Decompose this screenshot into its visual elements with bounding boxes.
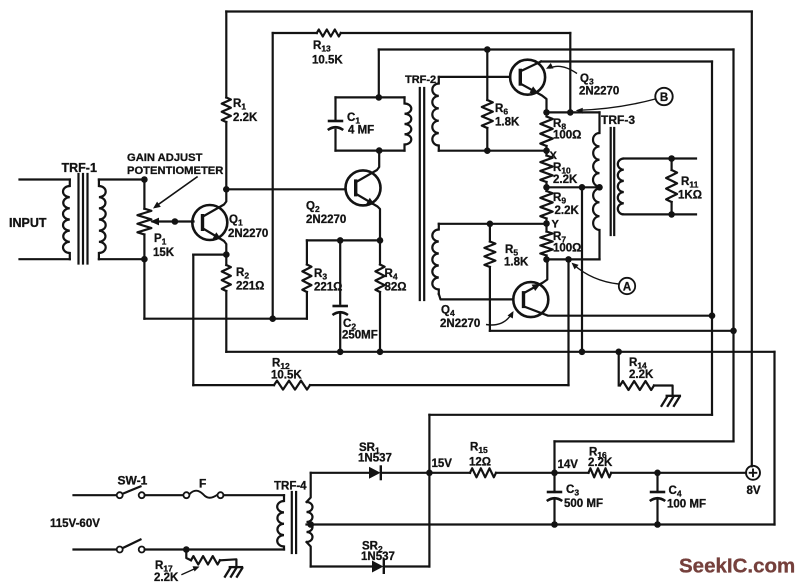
wire R11 box top (624, 157, 696, 159)
svg-text:GAIN ADJUST: GAIN ADJUST (127, 152, 203, 164)
node TRF-4 center tap (307, 521, 314, 528)
node Y junction (543, 220, 550, 227)
node C1 box top junction (376, 94, 383, 101)
terminal 8V positive (746, 466, 761, 497)
resistor R6 (482, 50, 520, 151)
potentiometer P1 (137, 180, 174, 260)
svg-text:2N2270: 2N2270 (579, 86, 619, 98)
svg-text:250MF: 250MF (342, 330, 378, 342)
wire left emitter drop (192, 255, 194, 386)
wire emitter junction to left (193, 254, 226, 256)
node Q4 collector junction on rail (709, 312, 716, 319)
wire R11 box bottom (624, 213, 696, 215)
label SeekIC.com watermark (679, 555, 795, 578)
node R1/Q1 collector junction (223, 186, 230, 193)
label POTENTIOMETER (127, 165, 223, 177)
node C2 top junction (337, 237, 344, 244)
svg-text:B: B (660, 92, 668, 104)
svg-text:TRF-3: TRF-3 (601, 113, 635, 127)
resistor R15 (469, 442, 496, 478)
wire R16 to C4 node (611, 472, 657, 474)
label X (550, 150, 558, 162)
node C4 bottom junction (654, 521, 661, 528)
svg-text:2.2K: 2.2K (555, 205, 580, 217)
wire rectifier output vertical (428, 473, 430, 567)
wire to node B (547, 111, 571, 113)
resistor R7 (540, 224, 581, 260)
switch SW-1 top pole (117, 486, 145, 498)
capacitor C4 (650, 473, 706, 525)
node Q2 emitter junction (377, 237, 384, 244)
wire 14V rail right vertical (732, 50, 734, 442)
wire supply return bus (311, 523, 775, 525)
label 115V-60V (50, 518, 100, 530)
svg-text:A: A (623, 282, 631, 294)
transistor Q4 (440, 259, 713, 330)
svg-text:1N537: 1N537 (358, 453, 392, 465)
node R7 bottom junction (543, 256, 550, 263)
svg-text:F: F (199, 477, 206, 491)
arrow Q4 label pointer (486, 311, 514, 325)
svg-text:15V: 15V (432, 458, 453, 470)
node R14 top junction (615, 349, 622, 356)
node C2 bottom on bus (337, 349, 344, 356)
wire R2 bottom lead to ground bus (225, 291, 227, 352)
label GAIN ADJUST (127, 152, 203, 164)
svg-text:1.8K: 1.8K (504, 257, 529, 269)
wire Q3 base line (439, 76, 510, 78)
node center-tap drop on bus (579, 349, 586, 356)
wire collector rail right vertical (711, 62, 713, 415)
wire TRF-1 secondary bottom to P1 (99, 258, 144, 260)
node A junction (565, 256, 572, 263)
node A circled label (619, 278, 635, 294)
wire 15V feed line (429, 414, 712, 416)
wire 14V feed line (555, 440, 734, 442)
arrow from A to node (572, 263, 619, 284)
node X junction (543, 147, 550, 154)
wire drop from R13 rail to node B (569, 33, 571, 112)
arrow Q3 label pointer (546, 63, 577, 74)
arrow gain-adjust pointer (153, 177, 197, 209)
svg-text:INPUT: INPUT (9, 216, 47, 230)
node center tap drop junction (579, 184, 586, 191)
svg-text:Y: Y (552, 219, 560, 231)
wire Q4 base line (439, 294, 514, 299)
svg-text:8V: 8V (747, 485, 761, 497)
wire C4 node to 8V terminal (658, 472, 747, 474)
svg-text:2.2K: 2.2K (233, 112, 258, 124)
wire drop from center tap to ground bus (581, 187, 583, 351)
wire bottom lead to TRF-4 (145, 548, 284, 550)
resistor R9 (540, 187, 579, 223)
resistor R8 (540, 117, 581, 151)
wire R3 bottom drop (306, 292, 308, 319)
fuse F (183, 477, 223, 499)
node B circled label (655, 88, 672, 105)
capacitor C2 (332, 240, 377, 351)
transformer TRF-1 (20, 161, 106, 264)
svg-text:2N2270: 2N2270 (228, 228, 268, 240)
wire main ground bus (226, 351, 774, 353)
wire R13 rail left segment (273, 32, 317, 34)
capacitor C1 (328, 97, 374, 150)
wire R13 rail right segment (341, 32, 571, 34)
wire 14V riser (553, 441, 555, 472)
svg-text:82Ω: 82Ω (385, 282, 407, 294)
svg-text:10.5K: 10.5K (271, 370, 302, 382)
node B junction (567, 109, 574, 116)
node R5 line junction on 14V rail (730, 328, 737, 335)
node R10/R9 junction (543, 184, 550, 191)
resistor R17 (154, 550, 236, 582)
resistor R14 (619, 352, 673, 396)
wire AC input bottom lead (74, 548, 117, 550)
switch SW-1 bottom pole (117, 540, 145, 553)
wire bottom of ladder to TRF-3 (547, 258, 600, 260)
wire R1 bottom lead (225, 122, 227, 189)
label Y (552, 219, 560, 231)
capacitor C3 (547, 473, 603, 525)
wire fuse to TRF-4 (224, 494, 285, 496)
svg-text:2.2K: 2.2K (629, 369, 654, 381)
svg-text:115V-60V: 115V-60V (50, 518, 100, 530)
wire C1 box bottom (336, 150, 405, 152)
wire drop from 14V rail to C1 box (378, 50, 380, 98)
wire switch to fuse (145, 494, 184, 496)
svg-text:1.8K: 1.8K (495, 117, 520, 129)
node C3 bottom junction (551, 521, 558, 528)
node Q3 emitter / R8 top (543, 109, 550, 116)
wire 15V feed drop (428, 415, 430, 473)
svg-text:TRF-2: TRF-2 (405, 74, 436, 86)
svg-text:TRF-4: TRF-4 (274, 481, 307, 493)
resistor R10 (540, 151, 578, 188)
svg-text:100Ω: 100Ω (553, 130, 581, 142)
resistor R5 (484, 224, 529, 269)
wire R5 to 14V rail (490, 330, 734, 332)
arrow R17 label pointer (182, 566, 200, 574)
node Q2 collector junction (376, 147, 383, 154)
wire 15V rail to R15 (429, 472, 470, 474)
wire C1 box top (336, 96, 405, 98)
wire R4 bottom lead (379, 292, 381, 352)
node 15V junction (426, 470, 433, 477)
svg-text:TRF-1: TRF-1 (62, 161, 97, 175)
svg-text:2N2270: 2N2270 (440, 318, 480, 330)
svg-text:12Ω: 12Ω (469, 457, 491, 469)
wire R5 bottom lead (489, 267, 491, 331)
wire SR1 anode lead (311, 472, 368, 474)
wire SR1 cathode to 15V node (381, 472, 429, 474)
resistor R1 (222, 98, 258, 125)
node 14V junction (551, 470, 558, 477)
svg-text:1N537: 1N537 (361, 551, 395, 563)
wire Q1 base lead (153, 220, 194, 222)
wire R1 top lead (225, 12, 227, 98)
wire P1 bottom drop (143, 259, 145, 319)
svg-text:2N2270: 2N2270 (306, 214, 346, 226)
svg-text:1KΩ: 1KΩ (678, 190, 702, 202)
resistor R3 (302, 240, 342, 293)
resistor R2 (222, 255, 265, 293)
svg-text:500 MF: 500 MF (564, 498, 603, 510)
ground symbol at R17 (224, 567, 243, 578)
wire SR2 cathode lead (384, 565, 429, 567)
svg-text:2.2K: 2.2K (553, 174, 578, 186)
svg-text:14V: 14V (558, 459, 579, 471)
svg-text:2.2K: 2.2K (588, 457, 613, 469)
node R4 bottom on bus (377, 349, 384, 356)
svg-text:SW-1: SW-1 (118, 474, 148, 488)
resistor R11 (666, 159, 702, 215)
node R17 junction (183, 546, 190, 553)
wire R12 line left segment (193, 384, 274, 386)
node junction with R13 drop (269, 315, 276, 322)
node R6 bottom junction (484, 147, 491, 154)
wire TRF-1 secondary top to P1 (99, 178, 144, 180)
wire 8V rail right side vertical (751, 12, 753, 467)
node center tap on TRF-3 (596, 184, 603, 191)
svg-text:100Ω: 100Ω (553, 243, 581, 255)
svg-text:100 MF: 100 MF (667, 499, 706, 511)
wire base line to Q2 (226, 188, 345, 190)
resistor R12 (271, 358, 310, 390)
node P1 bottom (141, 256, 148, 263)
label 15V (432, 458, 453, 470)
node R5 top junction (487, 221, 494, 228)
resistor R13 (312, 30, 343, 67)
wire 14V top rail (379, 48, 734, 50)
svg-text:15K: 15K (153, 247, 175, 259)
node Q1 emitter junction (223, 251, 230, 258)
wire R12 line right segment (310, 384, 569, 386)
svg-text:221Ω: 221Ω (314, 282, 342, 294)
wire AC input top lead (74, 494, 117, 496)
label 14V (558, 459, 579, 471)
wire X line (TRF-2 sec bottom) (439, 150, 547, 152)
node P1 top (141, 176, 148, 183)
wire bottom bus of input stage (144, 318, 307, 320)
label SW-1 (118, 474, 148, 488)
transformer TRF-2 (405, 74, 439, 300)
wire R3/R4 rail (307, 239, 380, 241)
svg-text:SeekIC.com: SeekIC.com (679, 555, 795, 578)
svg-text:10.5K: 10.5K (312, 55, 343, 67)
node on Q1 base wire (172, 218, 179, 225)
svg-text:2.2K: 2.2K (154, 572, 179, 582)
svg-text:4 MF: 4 MF (348, 125, 374, 137)
ground symbol at R14 (661, 396, 681, 407)
wire R15 to 14V node (496, 472, 555, 474)
node R6 top junction (484, 46, 491, 53)
wire Q3 collector rail (541, 60, 712, 62)
diode SR2 (361, 541, 395, 573)
wire SR2 anode lead (311, 565, 371, 567)
wire Y line (TRF-2 lower sec top) (439, 223, 547, 225)
wire center tap line (547, 186, 600, 188)
arrow from B to node (576, 99, 656, 114)
wire left drop from R13 rail (272, 33, 274, 319)
transformer TRF-4 (274, 473, 313, 567)
node R11 top junction (668, 155, 675, 162)
resistor R16 (588, 447, 613, 478)
transformer TRF-3 (570, 112, 635, 259)
wire from R1 top to 8V rail (top supply line) (226, 10, 752, 12)
transistor Q1 (192, 189, 268, 254)
transistor Q2 (306, 151, 381, 241)
node R11 bottom junction (668, 211, 675, 218)
diode SR1 (358, 442, 392, 479)
wire ground bus right vertical (773, 352, 775, 525)
svg-text:POTENTIOMETER: POTENTIOMETER (127, 165, 223, 177)
resistor R4 (375, 240, 406, 293)
transistor Q3 (510, 60, 619, 113)
svg-text:221Ω: 221Ω (236, 281, 264, 293)
wire 14V node to R16 (555, 472, 589, 474)
label INPUT (9, 216, 47, 230)
wire A node drop to R12 (567, 259, 569, 385)
node C4 top junction (654, 470, 661, 477)
